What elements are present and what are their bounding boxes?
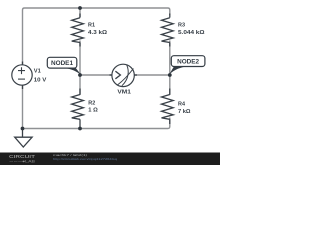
label R3 value: [178, 23, 205, 36]
watermark bar: [0, 153, 220, 166]
junction node2: [168, 73, 172, 77]
svg-text:VM1: VM1: [117, 89, 131, 95]
wire top loop: left vertical + top horizontal + right drop: [23, 8, 170, 65]
wire R3 bottom to node2: [169, 41, 171, 76]
svg-text:http​:​//circuitlab.com/cipq41: http​:​//circuitlab.com/cipq4127264Gq: [53, 157, 117, 161]
junction node1: [78, 73, 82, 77]
svg-text:1 Ω: 1 Ω: [88, 108, 98, 114]
node NODE1 label box: [47, 57, 77, 68]
wire R1 top lead: [79, 8, 81, 18]
resistor R4: [162, 89, 174, 125]
resistor R2: [72, 89, 84, 129]
svg-text:5.044 kΩ: 5.044 kΩ: [178, 30, 205, 36]
wire node2 to R4 top: [169, 75, 171, 95]
svg-text:7 kΩ: 7 kΩ: [178, 109, 191, 115]
svg-text:10 V: 10 V: [34, 77, 47, 83]
resistor R1: [72, 14, 84, 47]
wire R1 bottom to node1: [79, 41, 81, 76]
label R4 value: [178, 102, 191, 116]
watermark logo CIRCUIT LAB: [9, 154, 36, 163]
voltmeter VM1: [110, 64, 138, 86]
wire V1 bottom to ground junction: [22, 85, 24, 129]
svg-text:R4: R4: [178, 102, 185, 108]
svg-text:R1: R1: [88, 23, 95, 29]
junction ground: [21, 127, 25, 131]
label V1 value: [34, 69, 47, 84]
resistor R3: [162, 14, 174, 47]
junction top R1: [78, 6, 82, 10]
junction R2 bottom: [78, 127, 82, 131]
node NODE2 flag tail: [169, 66, 188, 74]
voltage source V1: [12, 62, 32, 90]
watermark text: [53, 153, 117, 161]
svg-text:R2: R2: [88, 100, 95, 106]
ground: [15, 129, 32, 148]
svg-text:4.3 kΩ: 4.3 kΩ: [88, 30, 107, 36]
svg-text:NODE2: NODE2: [177, 59, 199, 66]
wire node1 to R2 top: [79, 75, 81, 95]
svg-text:NODE1: NODE1: [51, 60, 73, 67]
node NODE2 label box: [171, 56, 205, 67]
wire bottom horizontal: [23, 118, 170, 129]
label R1 value: [88, 23, 107, 36]
svg-text:∼∼∼●LAB: ∼∼∼●LAB: [9, 159, 36, 163]
wire node1 to voltmeter: [80, 74, 112, 76]
wire voltmeter to node2: [134, 74, 170, 76]
svg-text:V1: V1: [34, 69, 41, 75]
label R2 value: [88, 100, 98, 113]
node NODE1 flag tail: [62, 68, 81, 75]
svg-text:R3: R3: [178, 23, 185, 29]
